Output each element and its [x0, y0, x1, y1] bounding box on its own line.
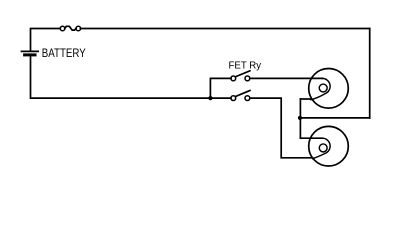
- lamp L1 bulb shell: [309, 69, 349, 109]
- battery B1 long plate: [22, 50, 39, 52]
- wire: vertical bus between lamp feed stubs: [299, 99, 301, 138]
- wire: horizontal into lamp common node: [300, 117, 370, 119]
- fuse F1 left terminal circle: [60, 26, 65, 31]
- svg-text:FET Ry: FET Ry: [228, 60, 261, 71]
- wire: top rail from battery + to fuse: [31, 29, 61, 51]
- fuse F1 right terminal circle: [76, 26, 81, 31]
- switch S2 left contact: [231, 96, 236, 101]
- battery B1 short thick plate: [25, 53, 35, 56]
- wire: common bus stub into lamp L2 filament: [300, 137, 322, 139]
- lamp L2 filament spiral: [313, 138, 331, 159]
- lamp L1 filament inner loop: [319, 84, 327, 92]
- switch S1 right contact: [245, 76, 250, 81]
- node: lamp common junction dot: [298, 116, 302, 120]
- wire: bottom rail into bottom switch: [210, 97, 231, 99]
- fuse F1 wave element: [65, 26, 76, 30]
- lamp L1 filament spiral: [311, 78, 330, 99]
- switch S1 left contact: [231, 76, 236, 81]
- svg-text:BATTERY: BATTERY: [42, 47, 87, 60]
- wire: battery - down to bottom rail: [31, 56, 211, 99]
- wire: branch up to top switch: [210, 78, 231, 98]
- wire: top switch to lamp L1 filament feed: [250, 77, 322, 79]
- switch S2 arm: [235, 91, 250, 97]
- wire: stub to lamp L1 shell: [300, 98, 311, 100]
- node: switch branch junction dot: [208, 96, 212, 100]
- lamp L2 filament inner loop: [319, 144, 327, 152]
- switch S2 right contact: [245, 96, 250, 101]
- wire: top rail from fuse to right side: [81, 28, 370, 30]
- wire: bottom switch to lamp L2: [250, 98, 313, 158]
- wire: right-side vertical drop: [369, 29, 371, 118]
- switch S1 arm: [235, 71, 250, 77]
- lamp L2 bulb shell: [309, 126, 349, 166]
